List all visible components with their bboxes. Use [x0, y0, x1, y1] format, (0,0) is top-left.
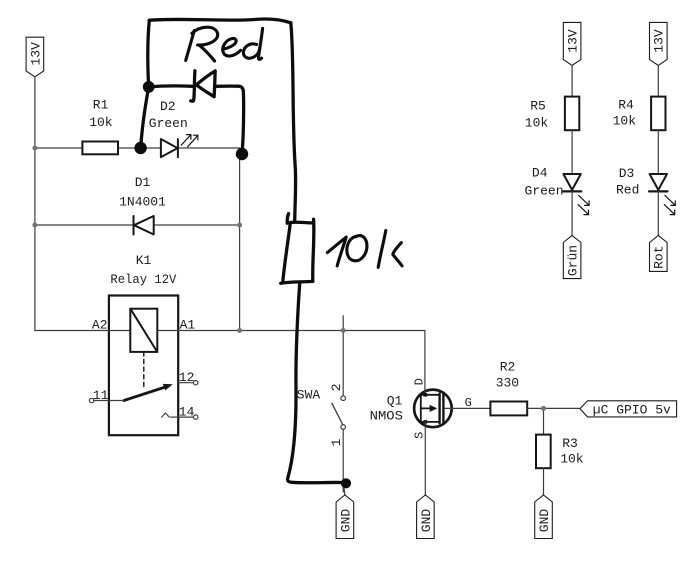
svg-text:11: 11: [93, 388, 109, 403]
svg-text:GND: GND: [419, 509, 434, 533]
wire: relay coil row y=330.5 from left rail to MOSFET drain corner: [35, 331, 425, 390]
svg-text:12: 12: [179, 370, 195, 385]
label R4 value 10k: [613, 98, 637, 129]
label D4 value Green: [524, 166, 563, 199]
power flag 13V (left rail): [26, 37, 44, 77]
svg-text:330: 330: [496, 376, 519, 391]
svg-text:Rot: Rot: [652, 245, 667, 268]
resistor R5: [565, 97, 579, 131]
ground GND (below R3): [535, 495, 553, 539]
diode (hand-drawn) red bypass: cathode bar: [191, 71, 195, 101]
label R2 value 330: [496, 359, 519, 390]
svg-text:SWA: SWA: [297, 388, 321, 403]
resistor R3: [536, 435, 551, 469]
wire (hand-drawn) loop left vertical: [148, 20, 149, 86]
resistor (hand-drawn) 10k box: [281, 214, 314, 284]
label D1 value 1N4001: [119, 175, 166, 210]
wire (hand-drawn) bypass from node to diode anode: [149, 86, 193, 87]
wire: R3 to GND: [543, 468, 545, 495]
svg-text:A1: A1: [180, 318, 196, 333]
svg-text:G: G: [465, 396, 472, 410]
svg-text:S: S: [413, 432, 427, 439]
svg-text:13V: 13V: [652, 29, 667, 53]
MOSFET Q1 drain wire: [424, 390, 426, 395]
wire: R5 to D4: [571, 130, 573, 174]
svg-text:GND: GND: [537, 509, 552, 533]
handwriting "10 k" : 0: [347, 236, 367, 261]
hierarchical label uC GPIO 5v: [580, 401, 677, 418]
LED D3 Red: [649, 174, 675, 215]
resistor R2: [490, 402, 527, 416]
svg-text:D1: D1: [135, 175, 151, 190]
junction node (R2 / R3 / GPIO): [541, 406, 546, 411]
label R1 value 10k: [89, 97, 113, 130]
wire (hand-drawn) below resistor down to GND corner: [288, 282, 345, 483]
relay K1 body box: [109, 296, 178, 436]
junction node (left rail / R1 row): [32, 146, 37, 151]
junction blob (hand) at R1/D2 node: [134, 142, 146, 154]
svg-text:10k: 10k: [560, 452, 584, 467]
svg-text:Green: Green: [524, 184, 563, 199]
resistor R1: [82, 142, 118, 155]
svg-text:13V: 13V: [28, 42, 43, 66]
wire: R2 to uC GPIO flag: [527, 407, 580, 409]
svg-text:2: 2: [329, 383, 344, 391]
wire (hand-drawn) loop right vertical down to resistor: [291, 23, 296, 222]
wire: SWA to GND1: [344, 484, 345, 495]
relay pin 11: [89, 398, 124, 402]
wire (hand-drawn) loop top horizontal: [149, 19, 290, 23]
svg-text:K1: K1: [136, 253, 152, 268]
ground GND (below SWA): [336, 495, 354, 539]
svg-text:Green: Green: [149, 116, 188, 131]
wire: R1/D2 row y=148: [35, 147, 240, 149]
svg-text:R2: R2: [500, 359, 516, 374]
svg-text:R1: R1: [93, 97, 109, 112]
svg-text:A2: A2: [92, 318, 108, 333]
svg-text:R5: R5: [530, 99, 546, 114]
svg-text:Red: Red: [616, 183, 639, 198]
handwriting "10 k" : k: [378, 230, 386, 267]
relay NC contact mark (small triangle): [162, 413, 170, 417]
junction blob (hand) at D2 cathode node: [236, 148, 248, 160]
power flag 13V (R4 chain): [650, 22, 668, 65]
diode D1 1N4001: [134, 216, 154, 235]
wire: junction down to R3: [543, 408, 545, 434]
svg-text:10k: 10k: [613, 114, 637, 129]
junction node (relay row / SWA branch): [341, 328, 346, 333]
svg-text:µC GPIO 5v: µC GPIO 5v: [593, 403, 671, 418]
handwriting "Red" : d: [243, 44, 259, 58]
svg-text:10k: 10k: [525, 116, 549, 131]
power flag 13V (R5 chain): [563, 22, 581, 65]
label R3 value 10k: [560, 436, 584, 467]
net label Gruen: [563, 236, 581, 279]
relay pin 14: [171, 415, 198, 419]
label D3 value Red: [616, 166, 639, 197]
ground GND (below Q1 source): [417, 495, 435, 539]
MOSFET Q1 gate wire to R2: [445, 407, 491, 409]
junction blob (hand) at red-diode node: [143, 81, 155, 93]
svg-text:1: 1: [329, 438, 344, 446]
junction node (left rail / D1 row): [32, 223, 37, 228]
wire: D3 to Rot label: [657, 191, 659, 235]
svg-text:Q1: Q1: [387, 394, 403, 409]
net label Rot: [650, 236, 668, 272]
svg-text:10k: 10k: [89, 115, 113, 130]
relay K1 coil: [130, 309, 157, 352]
wire (hand-drawn) node down to R1 output junction: [141, 88, 149, 147]
svg-text:GND: GND: [338, 509, 353, 533]
svg-text:Relay 12V: Relay 12V: [110, 272, 176, 287]
svg-text:Grün: Grün: [566, 245, 581, 276]
LED D2 Green: [161, 135, 198, 158]
label K1 value Relay 12V: [110, 253, 176, 287]
switch SWA: [332, 331, 346, 493]
handwriting "Red" : R: [186, 31, 195, 61]
MOSFET Q1 internals: [421, 393, 444, 424]
svg-text:14: 14: [179, 404, 195, 419]
relay pin 12: [178, 381, 198, 385]
wire: left rail vertical from 13V down to relay row: [34, 77, 36, 331]
wire: 13V to R5: [571, 66, 573, 97]
wire: 13V to R4: [657, 66, 659, 97]
wire: D1 row y=225: [35, 224, 240, 226]
label R5 value 10k: [525, 99, 549, 131]
svg-text:NMOS: NMOS: [370, 408, 404, 423]
relay K1 switch arm with arrowhead: [124, 384, 173, 401]
relay K1 dashed actuator link: [143, 352, 145, 388]
svg-text:13V: 13V: [566, 29, 581, 53]
wire: D4 to Gruen label: [571, 191, 573, 235]
LED D4 Green: [563, 174, 589, 215]
junction blob (hand) at GND node: [341, 478, 351, 488]
svg-text:D3: D3: [619, 166, 635, 181]
svg-text:D: D: [413, 378, 427, 385]
svg-text:1N4001: 1N4001: [119, 195, 166, 210]
junction node (relay row / right vertical): [237, 328, 242, 333]
wire: stub above SWA junction: [342, 316, 344, 331]
svg-text:D2: D2: [160, 99, 176, 114]
svg-text:D4: D4: [532, 166, 548, 181]
svg-text:R3: R3: [562, 436, 578, 451]
MOSFET Q1 circle: [414, 390, 452, 428]
MOSFET Q1 source wire down to GND: [424, 422, 426, 495]
junction node (D1 row / right vertical): [237, 223, 242, 228]
resistor R4: [651, 97, 665, 131]
label Q1 value NMOS: [370, 394, 404, 424]
wire: R4 to D3: [657, 130, 659, 174]
wire: vertical node D2-cathode to relay A1 row x=239.6: [239, 148, 241, 331]
svg-text:R4: R4: [618, 98, 634, 113]
wire (hand-drawn) diode to right drop into node: [216, 86, 244, 150]
handwriting "Red" : e: [223, 38, 241, 56]
handwriting "10 k" : 1: [327, 237, 346, 266]
label D2 value Green: [149, 99, 188, 131]
diode (hand-drawn) red bypass: triangle: [196, 71, 215, 97]
